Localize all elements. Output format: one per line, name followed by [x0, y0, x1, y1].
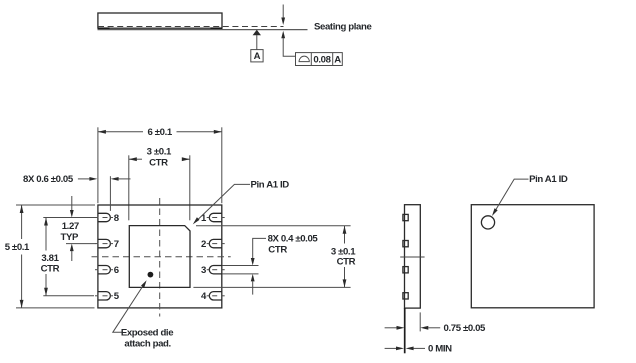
- dimension 5 ±0.1 extension bottom: [16, 307, 95, 309]
- svg-text:Pin A1 ID: Pin A1 ID: [251, 180, 290, 191]
- dimension 0 MIN: [385, 347, 397, 349]
- svg-text:Pin A1 ID: Pin A1 ID: [529, 174, 568, 185]
- dimension 6 ±0.1: [98, 131, 143, 133]
- svg-text:CTR: CTR: [337, 257, 356, 268]
- dimension 5 ±0.1: [21, 205, 23, 239]
- svg-text:CTR: CTR: [149, 157, 168, 168]
- feature control frame: [296, 53, 343, 66]
- lead 2 (edge view): [403, 241, 408, 247]
- svg-text:8X 0.4 ±0.05: 8X 0.4 ±0.05: [268, 234, 319, 245]
- pin 2: [209, 239, 222, 247]
- lead foot left (side view): [98, 27, 110, 30]
- datum A box: [251, 50, 263, 62]
- die attach dot: [148, 272, 154, 278]
- pin 4: [209, 292, 221, 300]
- svg-text:5: 5: [114, 291, 120, 302]
- svg-text:3 ±0.1: 3 ±0.1: [147, 147, 172, 158]
- edge view centerline: [400, 256, 424, 258]
- exposed pad with pin1 chamfer: [129, 226, 190, 288]
- dimension 6 ±0.1 extension left: [97, 127, 99, 203]
- pin 5: [98, 292, 110, 300]
- centerline horizontal: [92, 256, 231, 258]
- svg-text:1.27: 1.27: [62, 221, 79, 232]
- svg-text:A: A: [254, 51, 261, 62]
- dimension 5 ±0.1 extension top: [16, 204, 95, 206]
- svg-text:0 MIN: 0 MIN: [428, 344, 452, 355]
- pin 6: [98, 266, 110, 274]
- svg-text:Seating plane: Seating plane: [314, 22, 371, 33]
- svg-text:0.08: 0.08: [313, 54, 331, 65]
- svg-text:7: 7: [114, 239, 119, 250]
- dimension 3 ±0.1 CTR extension right: [189, 155, 191, 220]
- package body (edge view): [405, 205, 421, 308]
- pin 3 top extension: [222, 265, 258, 267]
- svg-text:6: 6: [114, 265, 119, 276]
- dimension 0.75 ±0.05: [385, 327, 398, 329]
- dimension 3 ±0.1 CTR extension left: [128, 155, 130, 220]
- tolerance zone arrow lower: [281, 31, 285, 39]
- svg-text:Exposed die: Exposed die: [121, 328, 173, 339]
- datum A triangle: [253, 30, 261, 35]
- svg-text:5 ±0.1: 5 ±0.1: [5, 242, 30, 253]
- datum A stem: [256, 35, 258, 50]
- svg-text:0.75 ±0.05: 0.75 ±0.05: [444, 323, 487, 334]
- svg-text:CTR: CTR: [268, 245, 287, 256]
- svg-text:A: A: [334, 54, 341, 65]
- seating plane line: [98, 29, 308, 31]
- pad top extension right: [196, 225, 351, 227]
- lead 1 (edge view): [403, 214, 408, 220]
- pin 7: [98, 239, 111, 247]
- tolerance zone arrow upper: [282, 5, 284, 19]
- svg-text:4: 4: [201, 291, 207, 302]
- svg-text:3: 3: [201, 265, 206, 276]
- svg-text:8X 0.6 ±0.05: 8X 0.6 ±0.05: [23, 174, 74, 185]
- package outline (bottom view): [98, 205, 222, 308]
- svg-text:CTR: CTR: [41, 264, 60, 275]
- package body (side view): [98, 13, 222, 28]
- dimension 1.27 TYP: [71, 196, 73, 210]
- lead 4 (edge view): [403, 293, 408, 299]
- dimension 3.81 CTR: [45, 218, 47, 251]
- svg-text:2: 2: [201, 239, 206, 250]
- svg-text:attach pad.: attach pad.: [124, 338, 170, 349]
- pin A1 index circle: [481, 216, 494, 229]
- thickness extension line: [419, 312, 421, 331]
- centerline vertical: [159, 198, 161, 317]
- dimension 3 ±0.1 CTR: [129, 158, 142, 160]
- svg-text:1: 1: [201, 213, 207, 224]
- pin 7 center extension: [66, 243, 96, 245]
- svg-text:8: 8: [114, 213, 120, 224]
- pin 8: [98, 213, 111, 221]
- pin 3: [209, 266, 221, 274]
- dimension 3 ±0.1 CTR (right): [344, 226, 346, 244]
- pin 5 center extension: [43, 295, 94, 297]
- svg-text:6 ±0.1: 6 ±0.1: [148, 127, 173, 138]
- lead foot right (side view): [211, 27, 223, 30]
- pin 8 center extension: [43, 217, 95, 219]
- dimension 6 ±0.1 extension right: [221, 127, 223, 203]
- lead 3 (edge view): [403, 267, 408, 273]
- pad bottom extension right: [193, 286, 350, 288]
- svg-text:TYP: TYP: [61, 232, 79, 243]
- seating edge extension: [404, 308, 406, 353]
- pin 1: [209, 213, 222, 221]
- pin-tip extension line: [109, 176, 111, 211]
- profile of surface symbol: [299, 56, 310, 62]
- pin 3 bottom extension: [222, 273, 258, 275]
- lead-tip plane (dashed): [98, 26, 284, 28]
- package outline (top view): [471, 205, 594, 308]
